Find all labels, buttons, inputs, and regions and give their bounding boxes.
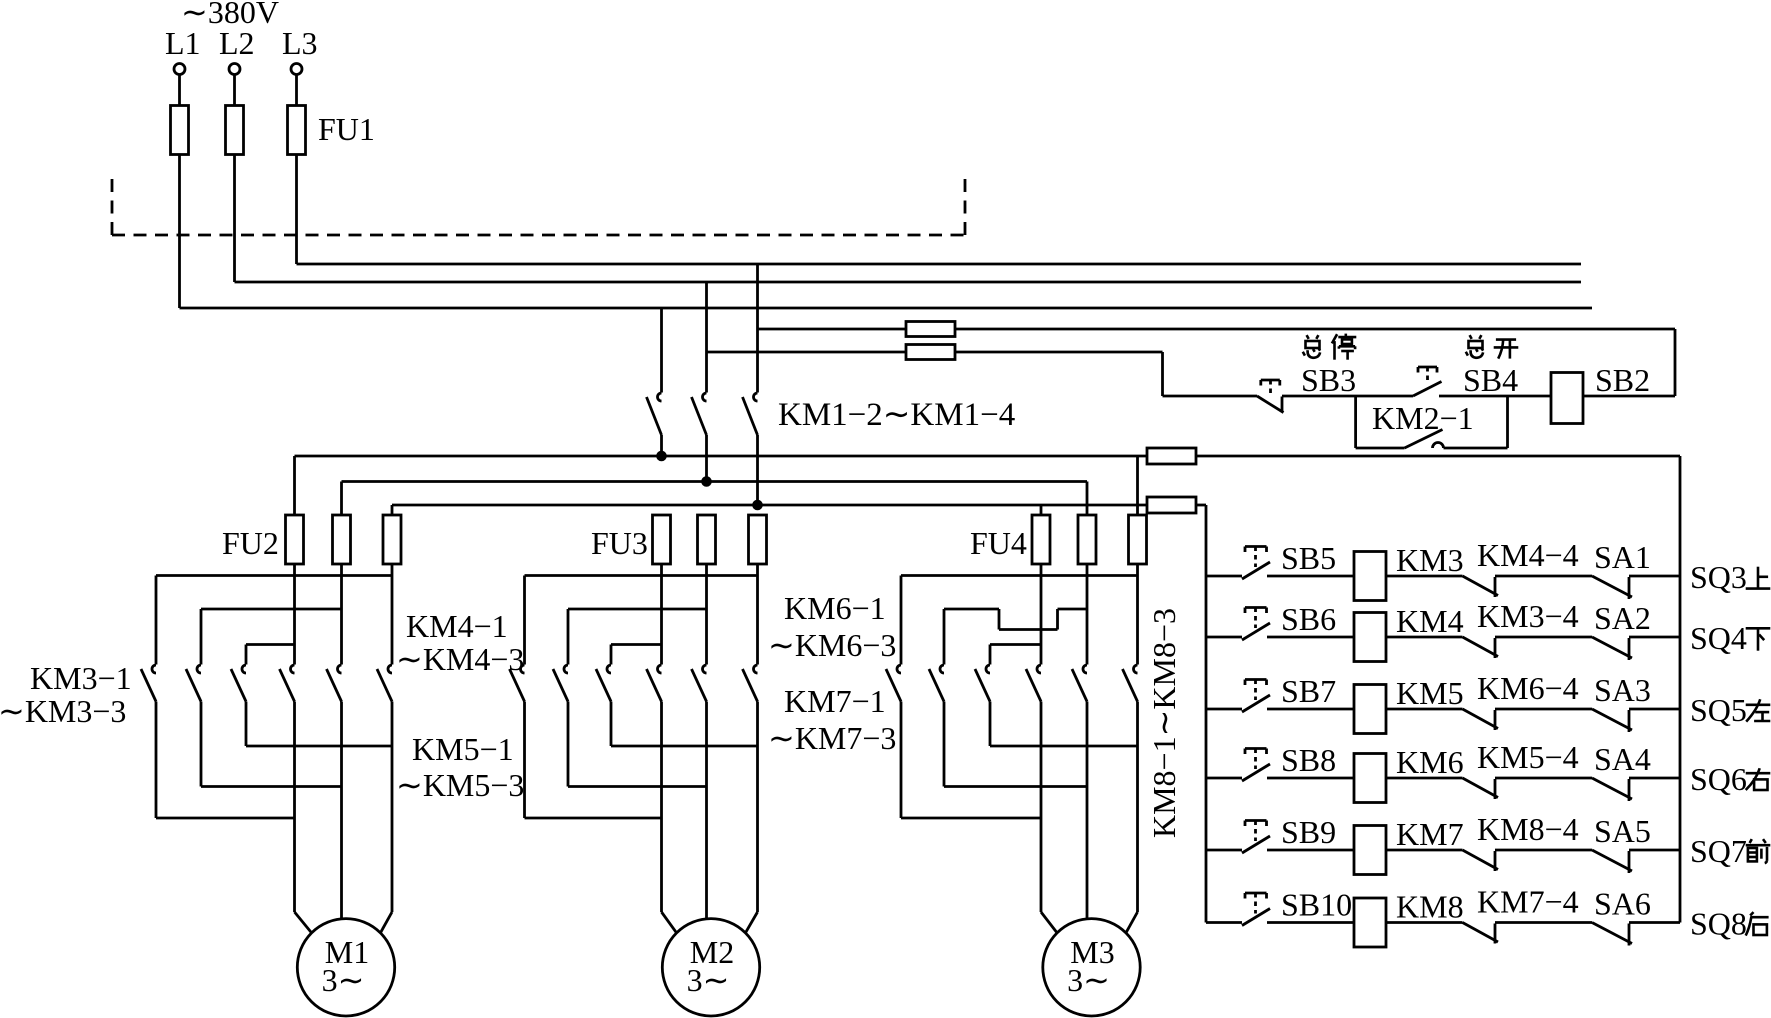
- contactor main contact KM1-2: [647, 393, 662, 435]
- svg-text:3∼: 3∼: [322, 962, 365, 998]
- pushbutton SB7 (NC): [1242, 680, 1270, 713]
- svg-text:SB5: SB5: [1281, 540, 1336, 576]
- svg-text:SQ7: SQ7: [1690, 833, 1747, 869]
- svg-text:KM3: KM3: [1396, 542, 1464, 578]
- pushbutton SB4 (NO, master start): [1413, 367, 1442, 396]
- wire middle phase drop to FU4: [1086, 482, 1089, 516]
- svg-text:KM7: KM7: [1396, 816, 1464, 852]
- label SB6: [1281, 601, 1336, 637]
- label KM8-1~KM8-3 (vertical): [1146, 608, 1182, 838]
- dashed panel boundary: [112, 177, 965, 235]
- wire KM1-3 to junction: [705, 435, 708, 482]
- wire rail stub row 2: [1206, 636, 1242, 639]
- svg-text:SA5: SA5: [1594, 813, 1651, 849]
- wire branch cross top (phase swap upper): [901, 576, 1138, 665]
- switch SA2 (NC limit): [1592, 637, 1632, 660]
- fuse FU2 (three cartridges): [222, 515, 401, 564]
- wire swap link mid: [568, 785, 707, 788]
- svg-text:KM4−4: KM4−4: [1477, 537, 1579, 573]
- wire KM5-4 to SA4: [1495, 777, 1592, 780]
- motor M2: [662, 919, 759, 1016]
- contact KM2-1 (self holding) with wires: [1356, 430, 1508, 449]
- svg-text:KM4: KM4: [1396, 603, 1464, 639]
- label KM5-4: [1477, 739, 1579, 775]
- wire SB3 to SB4: [1282, 395, 1413, 398]
- svg-text:L1: L1: [165, 25, 201, 61]
- label KM4-1~KM4-3: [396, 608, 524, 677]
- svg-text:L3: L3: [282, 25, 318, 61]
- svg-text:KM3−4: KM3−4: [1477, 598, 1579, 634]
- svg-text:SB9: SB9: [1281, 814, 1336, 850]
- wire branch cross top (phase swap upper): [525, 576, 758, 665]
- wire L1 from FU1 to bus: [178, 155, 181, 309]
- label KM6-4: [1477, 670, 1579, 706]
- label KM1-2~KM1-4: [778, 397, 1015, 433]
- fuse FU1 (three cartridges): [171, 106, 375, 155]
- svg-text:SA3: SA3: [1594, 672, 1651, 708]
- coil KM3: [1354, 552, 1386, 601]
- wire rail stub row 3: [1206, 708, 1242, 711]
- wire swap link mid: [201, 785, 342, 788]
- pushbutton SB3 (NC, master stop): [1257, 380, 1284, 413]
- wire KM4-4 to SA1: [1495, 575, 1592, 578]
- svg-text:FU2: FU2: [222, 525, 279, 561]
- label KM4: [1396, 603, 1464, 639]
- svg-text:SA6: SA6: [1594, 886, 1651, 922]
- wire coil to contact KM6-4: [1386, 708, 1463, 711]
- wire swap link bottom: [525, 817, 662, 820]
- label 总停 (master stop): [1303, 334, 1357, 360]
- contact KM7-4 (NC interlock): [1463, 923, 1499, 944]
- contactor main contact KM4-3: [377, 665, 392, 702]
- wire bus drop to KM1-2: [660, 308, 663, 393]
- svg-text:KM7−4: KM7−4: [1477, 884, 1579, 920]
- pushbutton SB5 (NC): [1242, 547, 1270, 580]
- label SA1: [1594, 539, 1651, 575]
- wire SA3 to right rail: [1629, 708, 1680, 711]
- contactor main contact KM3-3: [231, 665, 246, 702]
- label SB9: [1281, 814, 1336, 850]
- label SA3: [1594, 672, 1651, 708]
- motor M3: [1043, 919, 1140, 1016]
- svg-text:KM1−2∼KM1−4: KM1−2∼KM1−4: [778, 397, 1015, 433]
- wire coil to contact KM8-4: [1386, 849, 1463, 852]
- motor M1: [297, 919, 394, 1016]
- wire SB6 to coil KM4: [1267, 636, 1354, 639]
- wire L3 drop to FU1: [295, 75, 298, 106]
- svg-text:SB6: SB6: [1281, 601, 1336, 637]
- label KM7-4: [1477, 884, 1579, 920]
- contactor main contact KM8-2: [1072, 665, 1087, 702]
- switch SA3 (NC limit): [1592, 709, 1632, 732]
- svg-text:SA2: SA2: [1594, 600, 1651, 636]
- coil KM5: [1354, 685, 1386, 734]
- wire control lower to SB3: [955, 352, 1257, 396]
- fuse FU4 (three cartridges): [970, 515, 1147, 564]
- wire L1 drop to FU1: [178, 75, 181, 106]
- svg-text:KM6−4: KM6−4: [1477, 670, 1579, 706]
- svg-text:3∼: 3∼: [1067, 962, 1110, 998]
- svg-text:KM6−1: KM6−1: [784, 590, 886, 626]
- wire rail stub row 1: [1206, 575, 1242, 578]
- svg-text:SB4: SB4: [1463, 362, 1518, 398]
- wire branch cross low: [246, 645, 295, 665]
- wire motor feeders: [295, 912, 393, 933]
- wire control tap lower (from KM1 drop): [707, 351, 907, 354]
- wire SA2 to right rail: [1629, 636, 1680, 639]
- svg-text:KM8−4: KM8−4: [1477, 811, 1579, 847]
- wire SB2 to control loop right edge: [1583, 395, 1675, 398]
- wire SB5 to coil KM3: [1267, 575, 1354, 578]
- wire branch cross low: [611, 645, 662, 665]
- contactor main contact KM7-3: [975, 665, 990, 702]
- wire left rail: [1205, 505, 1208, 923]
- svg-text:∼KM7−3: ∼KM7−3: [768, 720, 896, 756]
- wire contact drops: [901, 702, 1138, 919]
- pushbutton SB6 (NC): [1242, 608, 1270, 641]
- svg-text:KM8−1∼KM8−3: KM8−1∼KM8−3: [1146, 608, 1182, 838]
- label KM3-4: [1477, 598, 1579, 634]
- label KM6: [1396, 744, 1464, 780]
- wire right rail: [1679, 456, 1682, 923]
- junction node at x=661.5: [658, 452, 666, 460]
- svg-text:SB7: SB7: [1281, 673, 1336, 709]
- coil KM8: [1354, 898, 1386, 947]
- wire motor feeders: [1041, 912, 1138, 933]
- wire bus phase L3 (top): [297, 263, 1582, 266]
- terminal L2: [219, 25, 255, 75]
- junction node at x=757.5: [754, 501, 762, 509]
- switch SA5 (NC limit): [1592, 850, 1632, 873]
- pushbutton SB9 (NC): [1242, 821, 1270, 854]
- svg-text:3∼: 3∼: [687, 962, 730, 998]
- switch SA1 (NC limit): [1592, 576, 1632, 599]
- svg-text:SB3: SB3: [1301, 362, 1356, 398]
- wire KM2-1 branch left drop: [1354, 396, 1357, 448]
- wire swap link bottom: [156, 817, 295, 820]
- wire rail stub row 5: [1206, 849, 1242, 852]
- wire branch cross mid with jog: [944, 609, 1087, 665]
- label SB4: [1463, 362, 1518, 398]
- contactor main contact KM8-1: [1026, 665, 1041, 702]
- junction node at x=706.5: [703, 478, 711, 486]
- wire swap link low: [246, 745, 392, 748]
- fuse control upper: [906, 322, 955, 337]
- coil SB2: [1551, 373, 1583, 424]
- pushbutton SB8 (NC): [1242, 749, 1270, 782]
- label SQ7前: [1690, 833, 1770, 869]
- label KM4-4: [1477, 537, 1579, 573]
- label SB8: [1281, 742, 1336, 778]
- coil KM4: [1354, 613, 1386, 662]
- svg-text:KM7−1: KM7−1: [784, 683, 886, 719]
- wire rail stub row 6: [1206, 921, 1242, 924]
- fuse on upper phase line: [1147, 448, 1196, 464]
- contactor main contact KM4-1: [280, 665, 295, 702]
- svg-text:SQ6: SQ6: [1690, 761, 1747, 797]
- contactor main contact KM5-3: [596, 665, 611, 702]
- contactor main contact KM4-2: [327, 665, 342, 702]
- wire KM1-4 to junction: [756, 435, 759, 505]
- wire fuse to contact: [705, 564, 708, 665]
- contactor main contact KM3-1: [141, 665, 156, 702]
- wire motor feeders: [662, 912, 758, 933]
- label SQ3上: [1690, 559, 1770, 595]
- wire SB7 to coil KM5: [1267, 708, 1354, 711]
- label SA4: [1594, 741, 1651, 777]
- contactor main contact KM1-4: [743, 393, 758, 435]
- svg-text:KM6: KM6: [1396, 744, 1464, 780]
- svg-text:FU4: FU4: [970, 525, 1027, 561]
- contact KM8-4 (NC interlock): [1463, 850, 1499, 871]
- wire KM7-4 to SA6: [1495, 921, 1592, 924]
- contactor main contact KM5-2: [553, 665, 568, 702]
- wire SB8 to coil KM6: [1267, 777, 1354, 780]
- terminal L1: [165, 25, 201, 75]
- wire contact drops: [525, 702, 758, 919]
- label KM3-1~KM3-3: [0, 660, 132, 729]
- label KM7-1~KM7-3: [768, 683, 896, 756]
- contactor main contact KM6-3: [743, 665, 758, 702]
- contactor main contact KM3-2: [186, 665, 201, 702]
- wire coil to contact KM3-4: [1386, 636, 1463, 639]
- svg-text:∼KM3−3: ∼KM3−3: [0, 693, 126, 729]
- wire bus drop to KM1-4: [756, 264, 759, 393]
- label SA2: [1594, 600, 1651, 636]
- wire fuse to contact: [1136, 564, 1139, 665]
- svg-text:SQ5: SQ5: [1690, 692, 1747, 728]
- label KM7: [1396, 816, 1464, 852]
- wire branch cross mid: [201, 609, 342, 665]
- contactor main contact KM1-3: [692, 393, 707, 435]
- wire fuse to contact: [756, 564, 759, 665]
- svg-text:KM3−1: KM3−1: [30, 660, 132, 696]
- wire KM3-4 to SA2: [1495, 636, 1592, 639]
- wire bus drop to KM1-3: [705, 282, 708, 393]
- label SA5: [1594, 813, 1651, 849]
- label SQ5左: [1690, 692, 1770, 728]
- contactor main contact KM7-2: [929, 665, 944, 702]
- svg-text:SQ4: SQ4: [1690, 620, 1747, 656]
- svg-text:L2: L2: [219, 25, 255, 61]
- svg-text:SB8: SB8: [1281, 742, 1336, 778]
- wire FU4 third drop: [1136, 456, 1139, 515]
- wire branch cross low: [990, 645, 1041, 665]
- svg-text:SA1: SA1: [1594, 539, 1651, 575]
- wire fuse to contact: [660, 564, 663, 665]
- wire fuse to contact: [391, 564, 394, 665]
- coil KM7: [1354, 826, 1386, 875]
- label SA6: [1594, 886, 1651, 922]
- svg-text:∼KM6−3: ∼KM6−3: [768, 627, 896, 663]
- contact KM6-4 (NC interlock): [1463, 709, 1499, 730]
- label SB10: [1281, 887, 1352, 923]
- wire coil to contact KM7-4: [1386, 921, 1463, 924]
- label KM8: [1396, 889, 1464, 925]
- svg-text:SA4: SA4: [1594, 741, 1651, 777]
- wire contact drops: [156, 702, 392, 919]
- wire phase line upper (y=456): [295, 455, 1148, 458]
- contactor main contact KM5-1: [510, 665, 525, 702]
- svg-text:KM4−1: KM4−1: [406, 608, 508, 644]
- wire branch cross top (phase swap upper): [156, 576, 392, 665]
- wire control tap upper (from KM1 drop): [758, 328, 907, 331]
- switch SA6 (NC limit): [1592, 923, 1632, 946]
- wire SB10 to coil KM8: [1267, 921, 1354, 924]
- svg-text:SB2: SB2: [1595, 362, 1650, 398]
- svg-text:∼KM5−3: ∼KM5−3: [396, 767, 524, 803]
- wire KM6-4 to SA3: [1495, 708, 1592, 711]
- wire fuse to contact: [293, 564, 296, 665]
- contact KM3-4 (NC interlock): [1463, 637, 1499, 658]
- wire SA1 to right rail: [1629, 575, 1680, 578]
- label KM5-1~KM5-3: [396, 731, 524, 803]
- wire SB9 to coil KM7: [1267, 849, 1354, 852]
- wire branch cross mid: [568, 609, 707, 665]
- label SQ6右: [1690, 761, 1770, 797]
- wire L2 from FU1 to bus: [233, 155, 236, 283]
- wire SA5 to right rail: [1629, 849, 1680, 852]
- wire SB4 to SB2 coil: [1439, 395, 1551, 398]
- contact KM4-4 (NC interlock): [1463, 576, 1499, 597]
- contactor main contact KM6-1: [647, 665, 662, 702]
- label SQ4下: [1690, 620, 1770, 656]
- fuse on lower phase line: [1147, 497, 1196, 513]
- fuse FU3 (three cartridges): [591, 515, 767, 564]
- svg-text:FU3: FU3: [591, 525, 648, 561]
- label SQ8后: [1690, 906, 1769, 942]
- wire phase line lower (y=505): [392, 504, 1147, 507]
- svg-text:KM5−1: KM5−1: [412, 731, 514, 767]
- label ~380V power source: [181, 0, 279, 30]
- wire FU2 feeders: [295, 456, 393, 515]
- pushbutton SB10 (NC): [1242, 893, 1270, 926]
- svg-text:KM5: KM5: [1396, 675, 1464, 711]
- wire swap link mid: [944, 785, 1087, 788]
- wire control upper to right edge: [955, 329, 1675, 396]
- wire SA4 to right rail: [1629, 777, 1680, 780]
- label KM6-1~KM6-3: [768, 590, 896, 663]
- label KM5: [1396, 675, 1464, 711]
- contactor main contact KM7-1: [886, 665, 901, 702]
- label SB5: [1281, 540, 1336, 576]
- wire lower phase drop to FU4: [1040, 505, 1043, 515]
- coil KM6: [1354, 754, 1386, 803]
- wire KM2-1 branch right riser: [1506, 396, 1509, 448]
- label SB3: [1301, 362, 1356, 398]
- label KM3: [1396, 542, 1464, 578]
- wire coil to contact KM5-4: [1386, 777, 1463, 780]
- wire swap link low: [611, 745, 758, 748]
- wire coil to contact KM4-4: [1386, 575, 1463, 578]
- terminal L3: [282, 25, 318, 75]
- wire lower phase line to left rail: [1196, 504, 1206, 507]
- svg-text:SQ3: SQ3: [1690, 559, 1747, 595]
- wire bus phase L1 (bottom): [180, 307, 1593, 310]
- wire phase line middle (y=481.5): [342, 480, 1088, 483]
- wire KM1-2 to junction: [660, 435, 663, 456]
- wire fuse to contact: [340, 564, 343, 665]
- svg-text:SQ8: SQ8: [1690, 906, 1747, 942]
- contact KM5-4 (NC interlock): [1463, 778, 1499, 799]
- svg-text:KM8: KM8: [1396, 889, 1464, 925]
- label SB2: [1595, 362, 1650, 398]
- wire rail stub row 4: [1206, 777, 1242, 780]
- svg-text:SB10: SB10: [1281, 887, 1352, 923]
- contactor main contact KM6-2: [692, 665, 707, 702]
- contactor main contact KM8-3: [1123, 665, 1138, 702]
- wire L3 from FU1 to bus: [295, 155, 298, 265]
- wire bus phase L2 (middle): [235, 281, 1582, 284]
- wire swap link bottom: [901, 817, 1041, 820]
- svg-text:FU1: FU1: [318, 111, 375, 147]
- svg-text:∼KM4−3: ∼KM4−3: [396, 641, 524, 677]
- label 总开 (master start): [1466, 335, 1519, 359]
- label KM8-4: [1477, 811, 1579, 847]
- wire swap link low: [990, 745, 1138, 748]
- wire upper phase line to right rail: [1196, 455, 1680, 458]
- wire KM8-4 to SA5: [1495, 849, 1592, 852]
- wire fuse to contact: [1086, 564, 1089, 665]
- label SB7: [1281, 673, 1336, 709]
- wire L2 drop to FU1: [233, 75, 236, 106]
- svg-text:KM5−4: KM5−4: [1477, 739, 1579, 775]
- fuse control lower: [906, 345, 955, 360]
- label KM2-1: [1372, 400, 1474, 436]
- switch SA4 (NC limit): [1592, 778, 1632, 801]
- svg-text:KM2−1: KM2−1: [1372, 400, 1474, 436]
- wire SA6 to right rail: [1629, 921, 1680, 924]
- wire fuse to contact: [1040, 564, 1043, 665]
